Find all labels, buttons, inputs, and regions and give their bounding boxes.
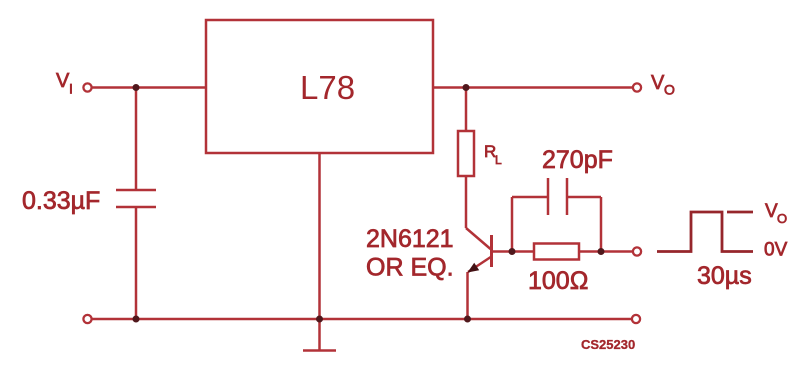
svg-text:L78: L78 (300, 69, 355, 106)
svg-text:0.33µF: 0.33µF (22, 187, 100, 215)
svg-text:2N6121: 2N6121 (366, 225, 454, 253)
svg-text:O: O (664, 82, 675, 98)
svg-text:L: L (495, 153, 502, 167)
svg-text:V: V (651, 72, 665, 94)
svg-text:O: O (777, 211, 787, 226)
svg-text:CS25230: CS25230 (581, 337, 635, 352)
svg-text:100Ω: 100Ω (528, 267, 588, 295)
svg-text:30µs: 30µs (697, 262, 752, 290)
svg-text:270pF: 270pF (542, 146, 613, 174)
svg-text:I: I (69, 81, 73, 97)
svg-text:0V: 0V (764, 240, 788, 261)
svg-text:V: V (56, 70, 70, 92)
svg-text:OR EQ.: OR EQ. (366, 254, 454, 282)
